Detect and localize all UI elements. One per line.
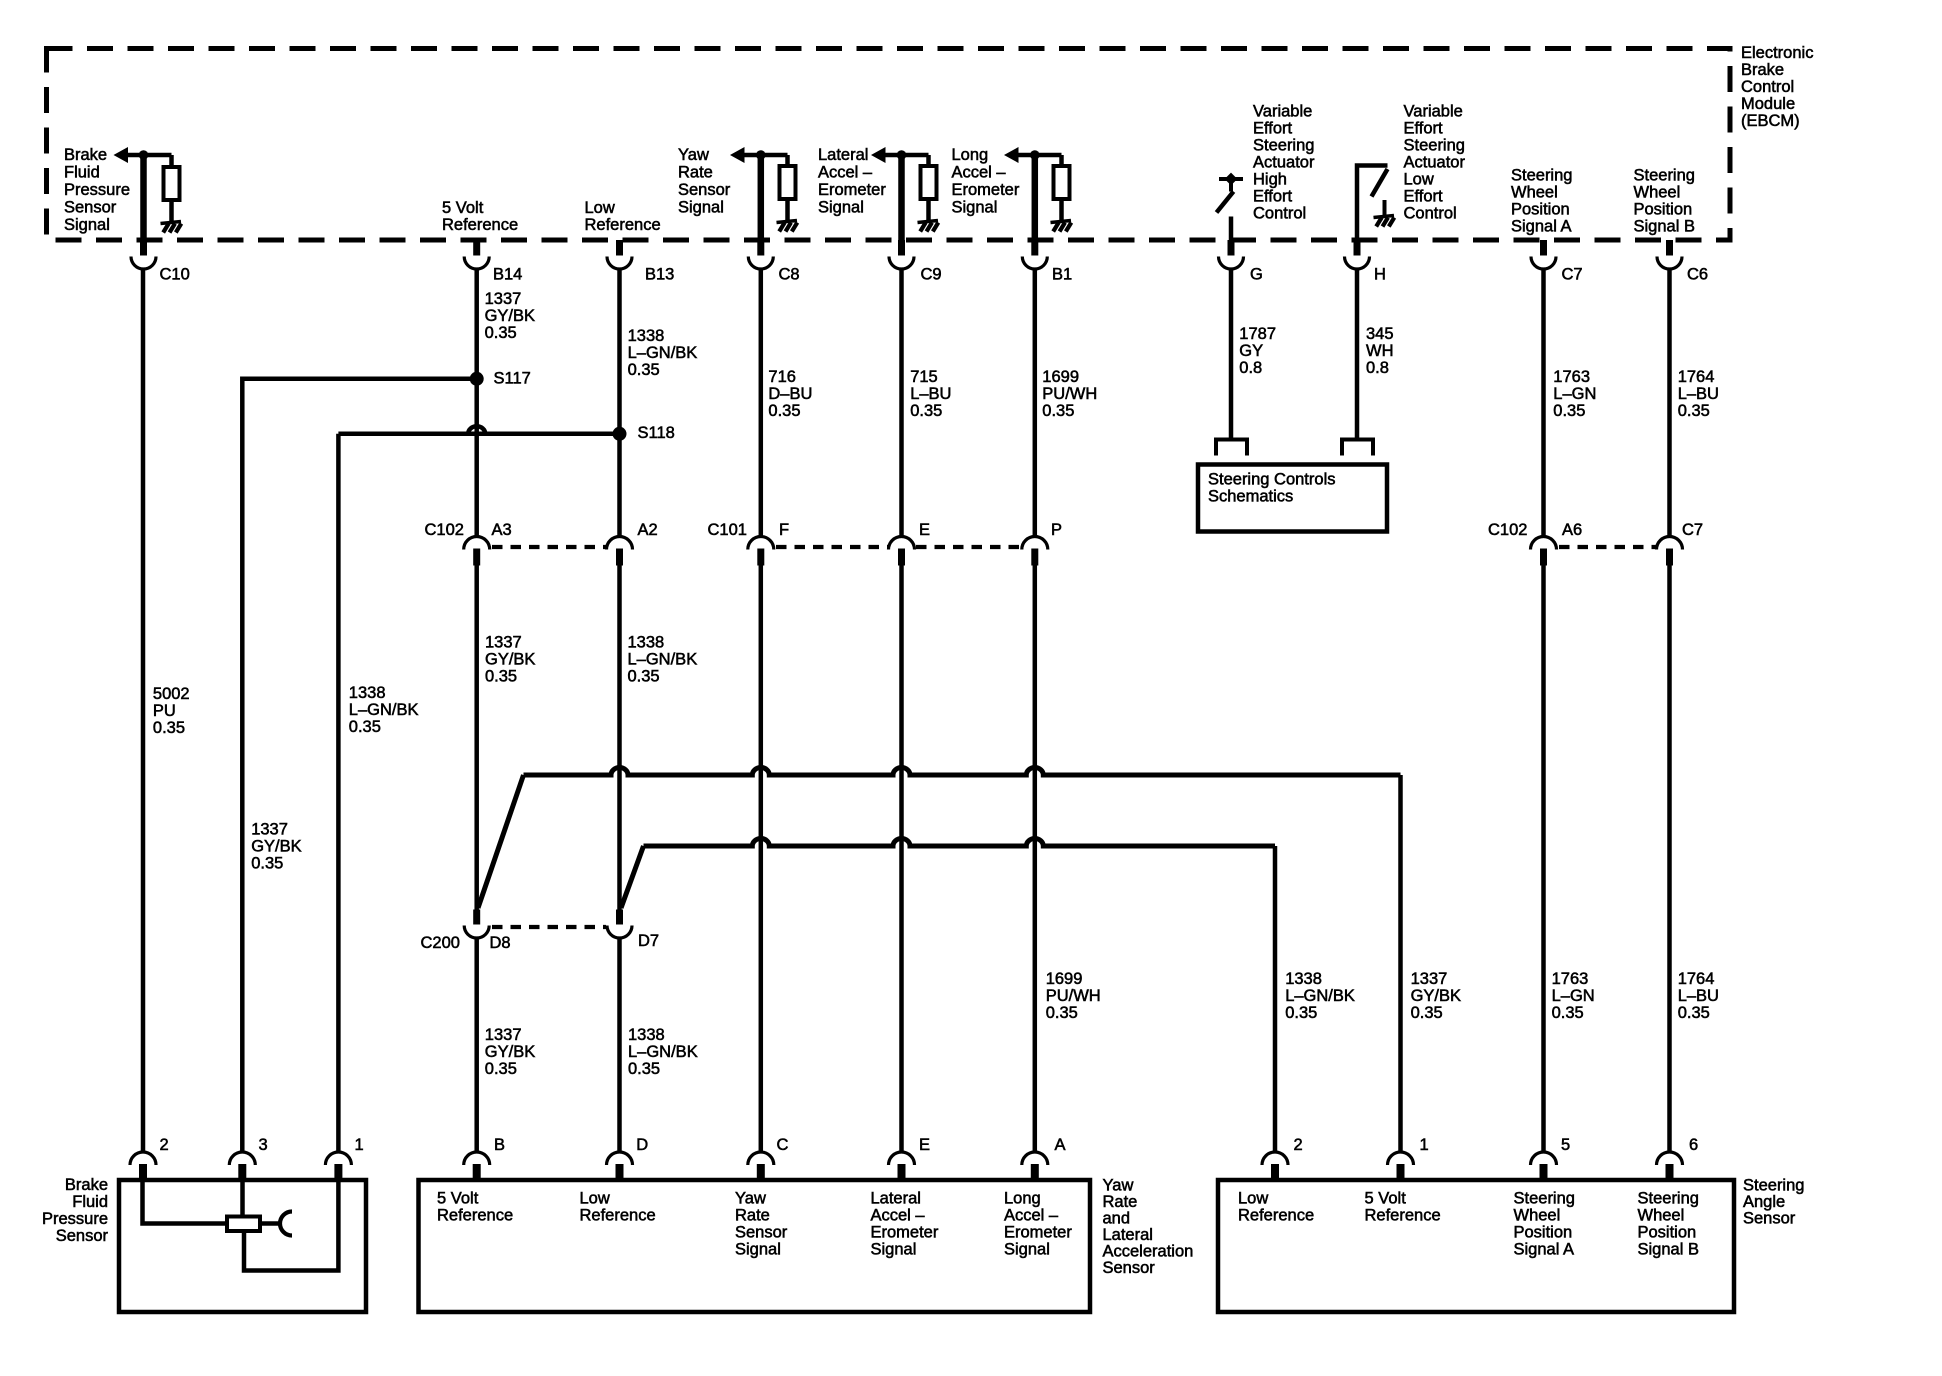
svg-text:0.8: 0.8 (1366, 359, 1389, 377)
svg-text:Yaw: Yaw (735, 1190, 766, 1208)
connector link dash E-P (916, 545, 1021, 549)
svg-text:0.35: 0.35 (349, 718, 381, 736)
svg-text:and: and (1103, 1210, 1131, 1228)
wire resistor R3 to ground (926, 198, 931, 221)
label: 5 Volt Reference (EBCM pin B14) (442, 199, 518, 234)
svg-text:Variable: Variable (1404, 103, 1463, 121)
wire B1 vertical inside EBCM (1032, 155, 1039, 240)
svg-text:H: H (1374, 266, 1386, 284)
wire resistor R4 to ground (1059, 198, 1064, 221)
wire C101 P to sensor pin A (1699) (1033, 566, 1038, 1153)
wire 1337 from C200 D8 to steering angle sensor pin 1 (hops over crossing wires) (524, 768, 1401, 776)
svg-text:Pressure: Pressure (42, 1210, 108, 1228)
arrow Lateral Accelerometer Signal (871, 147, 886, 163)
svg-text:Rate: Rate (1103, 1193, 1138, 1211)
svg-text:Wheel: Wheel (1638, 1207, 1685, 1225)
label: Steering Controls Schematics (1208, 471, 1335, 506)
wire label: circuit 1763 lower (1552, 970, 1595, 1022)
connector pin B14 (EBCM) (464, 240, 522, 284)
connector pin C9 (EBCM) (889, 240, 942, 284)
connector C102/C101 terminal C7 (1657, 521, 1704, 565)
svg-text:Signal A: Signal A (1511, 218, 1572, 236)
svg-text:0.35: 0.35 (1046, 1004, 1078, 1022)
label: Yaw Rate Sensor Signal (sensor pin C) (735, 1190, 788, 1259)
svg-text:Steering Controls: Steering Controls (1208, 471, 1335, 489)
svg-text:1338: 1338 (628, 327, 665, 345)
svg-text:Low: Low (1238, 1190, 1268, 1208)
svg-text:C: C (777, 1136, 789, 1154)
switch SW1 High Effort Control (1217, 173, 1244, 213)
label: Low Reference (sensor pin 2) (1238, 1190, 1314, 1225)
label: Lateral Accelerometer Signal (EBCM pin C9) (818, 146, 886, 217)
ground (EBCM internal, R2) (777, 221, 798, 223)
svg-text:Control: Control (1253, 205, 1306, 223)
svg-text:Long: Long (952, 146, 989, 164)
label: Brake Fluid Pressure Sensor Signal (EBCM pin C10) (64, 146, 130, 234)
svg-text:B: B (494, 1136, 505, 1154)
svg-text:Steering: Steering (1514, 1190, 1575, 1208)
junction dot at C10 wire tap (139, 150, 149, 160)
box: Steering Controls Schematics (1198, 465, 1387, 532)
label: Yaw Rate and Lateral Acceleration Sensor (1103, 1177, 1194, 1278)
connector link dash D8-D7 (492, 925, 606, 929)
svg-text:Signal: Signal (64, 216, 110, 234)
svg-text:715: 715 (910, 368, 938, 386)
svg-text:Signal: Signal (871, 1241, 917, 1259)
svg-text:E: E (919, 1136, 930, 1154)
svg-text:Effort: Effort (1404, 120, 1444, 138)
arrow Yaw Rate Sensor Signal (730, 147, 745, 163)
label: Steering Wheel Position Signal B (EBCM pin C6) (1634, 167, 1695, 236)
svg-text:1338: 1338 (1285, 970, 1322, 988)
svg-text:A: A (1055, 1136, 1066, 1154)
svg-text:Steering: Steering (1638, 1190, 1699, 1208)
junction (splice) S117 (470, 372, 484, 386)
label: 5 Volt Reference (sensor pin 1) (1365, 1190, 1441, 1225)
svg-text:Position: Position (1638, 1224, 1697, 1242)
connector pin B1 (EBCM) (1022, 240, 1072, 284)
svg-text:Low: Low (1404, 171, 1434, 189)
label: 5 Volt Reference (sensor pin B) (437, 1190, 513, 1225)
Electronic Brake Control Module (EBCM) dashed boundary box (47, 49, 1731, 241)
wire A3 to C200 D8 (1337) (474, 566, 479, 910)
connector pin C6 (EBCM) (1657, 240, 1708, 284)
svg-text:Signal: Signal (678, 199, 724, 217)
svg-text:Sensor: Sensor (735, 1224, 788, 1242)
wire label: circuit 1337 middle (485, 634, 535, 686)
label: Low Reference (sensor pin D) (580, 1190, 656, 1225)
svg-text:Sensor: Sensor (64, 199, 117, 217)
svg-text:0.35: 0.35 (1411, 1004, 1443, 1022)
connector sensor pin 2 (130, 1136, 169, 1181)
wire label: circuit 1337 (left branch) (251, 820, 301, 872)
svg-text:Signal B: Signal B (1638, 1241, 1699, 1259)
svg-text:S117: S117 (494, 370, 531, 388)
label: Steering Angle Sensor (1743, 1177, 1804, 1228)
wire to resistor R4 top (1059, 155, 1064, 166)
svg-text:D–BU: D–BU (768, 385, 812, 403)
svg-text:C6: C6 (1687, 266, 1708, 284)
wire resistor R2 to ground (785, 198, 790, 221)
wire diagonal into C200 D8 (478, 775, 524, 908)
wire to resistor R3 top (926, 155, 931, 166)
svg-text:Low: Low (585, 199, 615, 217)
label: Long Accelerometer Signal (EBCM pin B1) (952, 146, 1020, 217)
svg-text:S118: S118 (638, 424, 675, 442)
svg-text:0.35: 0.35 (1678, 402, 1710, 420)
svg-text:0.35: 0.35 (1678, 1004, 1710, 1022)
svg-text:A2: A2 (638, 521, 658, 539)
connector pin G (EBCM) (1219, 240, 1263, 284)
connector C102/C101 terminal A2 (607, 521, 658, 565)
svg-text:Schematics: Schematics (1208, 488, 1293, 506)
connector pin C10 (EBCM) (131, 240, 190, 284)
resistor R2 (EBCM internal) (780, 166, 796, 199)
wire C10 vertical inside EBCM (140, 155, 147, 240)
wire D7 to sensor pin D (1338) (617, 939, 622, 1153)
svg-text:1337: 1337 (485, 634, 522, 652)
svg-text:(EBCM): (EBCM) (1741, 112, 1800, 130)
svg-text:B14: B14 (493, 266, 522, 284)
svg-text:L–BU: L–BU (910, 385, 951, 403)
svg-text:C101: C101 (708, 521, 747, 539)
svg-text:1337: 1337 (251, 820, 288, 838)
svg-text:C9: C9 (921, 266, 942, 284)
connector C102/C101 terminal E (889, 521, 931, 565)
wire C9 vertical inside EBCM (898, 155, 905, 240)
svg-text:Signal: Signal (818, 199, 864, 217)
svg-text:Position: Position (1514, 1224, 1573, 1242)
svg-text:C102: C102 (425, 521, 464, 539)
svg-text:Long: Long (1004, 1190, 1041, 1208)
svg-text:1764: 1764 (1678, 368, 1715, 386)
svg-text:Effort: Effort (1253, 188, 1293, 206)
connector sensor pin D (607, 1136, 649, 1181)
off-page bracket H wire (1342, 440, 1373, 456)
resistor R3 (EBCM internal) (921, 166, 937, 199)
wire switch SW1 to EBCM border (pin G) (1229, 217, 1234, 241)
svg-text:GY/BK: GY/BK (1411, 987, 1461, 1005)
box: Brake Fluid Pressure Sensor (119, 1180, 366, 1312)
svg-text:High: High (1253, 171, 1287, 189)
wire S118 branch to sensor pin 1 (1338), hops over B14 wire (338, 426, 619, 434)
svg-text:1338: 1338 (628, 1026, 665, 1044)
svg-text:1763: 1763 (1553, 368, 1590, 386)
wire sensor pin 1 internal (244, 1182, 338, 1271)
svg-text:1337: 1337 (485, 1026, 522, 1044)
wire C8 to C101 F (716) (759, 269, 764, 537)
svg-text:5002: 5002 (153, 685, 190, 703)
wire C7 to C102 A6 (1763) (1541, 269, 1546, 537)
connector sensor pin E (889, 1136, 931, 1181)
connector link dash A3-A2 (492, 545, 606, 549)
label: Electronic Brake Control Module (EBCM) (1741, 44, 1813, 130)
connector link dash A6-C7 (1559, 545, 1656, 549)
wire label: circuit 1699 upper (1042, 368, 1097, 420)
ground (EBCM internal, R3) (918, 221, 939, 223)
label S117 (494, 370, 531, 388)
svg-text:1337: 1337 (1411, 970, 1448, 988)
svg-text:L–GN: L–GN (1552, 987, 1595, 1005)
svg-text:Reference: Reference (442, 216, 518, 234)
svg-text:Sensor: Sensor (56, 1227, 109, 1245)
connector sensor pin 1 (325, 1136, 363, 1181)
label: Variable Effort Steering Actuator Low Effort Control (pin H) (1404, 103, 1466, 223)
resistor R4 (EBCM internal) (1054, 166, 1070, 199)
svg-text:Variable: Variable (1253, 103, 1312, 121)
box: Steering Angle Sensor (1218, 1180, 1734, 1312)
wire label: circuit 1338 middle (628, 634, 698, 686)
svg-text:L–BU: L–BU (1678, 987, 1719, 1005)
svg-text:Yaw: Yaw (678, 146, 709, 164)
connector sensor pin 3 (229, 1136, 267, 1181)
svg-text:Reference: Reference (1238, 1207, 1314, 1225)
svg-text:Accel –: Accel – (952, 164, 1007, 182)
svg-text:Steering: Steering (1743, 1177, 1804, 1195)
svg-text:D7: D7 (638, 932, 659, 950)
svg-text:0.35: 0.35 (485, 668, 517, 686)
svg-text:A3: A3 (492, 521, 512, 539)
svg-text:Effort: Effort (1404, 188, 1444, 206)
svg-text:Position: Position (1634, 201, 1693, 219)
wire G to Steering Controls Schematics (1787) (1229, 269, 1234, 438)
wire label: circuit 1337 right (1411, 970, 1461, 1022)
connector sensor pin 1 (1388, 1136, 1429, 1181)
svg-text:C200: C200 (421, 934, 460, 952)
svg-text:P: P (1051, 521, 1062, 539)
junction dot at C9 wire tap (897, 150, 907, 160)
junction dot at C8 wire tap (756, 150, 766, 160)
svg-text:B1: B1 (1052, 266, 1072, 284)
svg-text:1699: 1699 (1042, 368, 1079, 386)
switch SW2 Low Effort Control (1357, 166, 1388, 241)
svg-text:0.35: 0.35 (628, 1060, 660, 1078)
wire label: circuit 1699 lower (1046, 970, 1101, 1022)
wire B13 to C102 A2 (1338) (617, 269, 622, 537)
svg-text:Angle: Angle (1743, 1193, 1785, 1211)
svg-text:Brake: Brake (65, 1176, 108, 1194)
svg-text:Erometer: Erometer (871, 1224, 939, 1242)
svg-text:Acceleration: Acceleration (1103, 1243, 1194, 1261)
svg-text:5: 5 (1561, 1136, 1570, 1154)
label C102 (right) (1488, 521, 1527, 539)
junction (splice) S118 (613, 427, 627, 441)
wire B1 to C101 P (1699) (1033, 269, 1038, 537)
svg-text:5 Volt: 5 Volt (442, 199, 484, 217)
svg-text:GY/BK: GY/BK (485, 307, 535, 325)
wire B14 to C102 A3 (1337) (474, 269, 479, 537)
svg-text:Steering: Steering (1253, 137, 1314, 155)
wire D8 to sensor pin B (1337) (474, 939, 479, 1153)
svg-text:Reference: Reference (585, 216, 661, 234)
svg-text:GY/BK: GY/BK (485, 651, 535, 669)
wire C6 to C102 C7 (1764) (1667, 269, 1672, 537)
connector sensor pin A (1022, 1136, 1066, 1181)
connector pin C8 (EBCM) (748, 240, 799, 284)
svg-text:Signal: Signal (735, 1241, 781, 1259)
connector sensor pin 5 (1531, 1136, 1571, 1181)
ground (EBCM internal, R1) (161, 222, 182, 224)
wire A2 to C200 D7 (1338) (617, 566, 622, 910)
connector pin B13 (EBCM) (607, 240, 674, 284)
svg-text:Brake: Brake (1741, 61, 1784, 79)
wire label: circuit 1338 lower (628, 1026, 698, 1078)
transducer symbol (pressure transducer C shape) (280, 1212, 292, 1236)
svg-text:WH: WH (1366, 342, 1394, 360)
wire arrow to resistor R4 (1016, 153, 1062, 158)
svg-text:C8: C8 (779, 266, 800, 284)
wire arrow to resistor R2 (742, 153, 788, 158)
wire sensor pin 2 internal (143, 1182, 228, 1224)
wire label: circuit 1764 upper (1678, 368, 1719, 420)
off-page bracket G wire (1216, 440, 1247, 456)
svg-text:Lateral: Lateral (871, 1190, 921, 1208)
wire C102 A6 to sensor pin 5 (1763) (1541, 566, 1546, 1153)
wire C8 vertical inside EBCM (758, 155, 765, 240)
svg-text:0.35: 0.35 (628, 668, 660, 686)
connector C200 terminal D7 (607, 910, 659, 951)
label C101 (708, 521, 747, 539)
wire label: circuit 1787 (1239, 325, 1276, 377)
wire label: circuit 1338 right (1285, 970, 1355, 1022)
svg-text:1763: 1763 (1552, 970, 1589, 988)
svg-text:GY/BK: GY/BK (251, 837, 301, 855)
svg-text:PU: PU (153, 702, 176, 720)
svg-text:1764: 1764 (1678, 970, 1715, 988)
label: Lateral Accelerometer Signal (sensor pin E) (871, 1190, 939, 1259)
wire resistor R1 to ground (169, 199, 174, 222)
svg-text:1: 1 (355, 1136, 364, 1154)
wire C10 to sensor pin 2 (5002 PU) (141, 269, 146, 1153)
svg-text:Sensor: Sensor (678, 181, 731, 199)
svg-text:0.35: 0.35 (153, 719, 185, 737)
svg-text:Lateral: Lateral (1103, 1226, 1153, 1244)
svg-text:Actuator: Actuator (1253, 154, 1315, 172)
svg-text:0.35: 0.35 (251, 854, 283, 872)
svg-text:Control: Control (1741, 78, 1794, 96)
svg-text:Fluid: Fluid (72, 1193, 108, 1211)
label C102 (left) (425, 521, 464, 539)
wire C101 E to sensor pin E (715) (899, 566, 904, 1153)
connector C102/C101 terminal A3 (464, 521, 512, 565)
label C200 (421, 934, 460, 952)
svg-text:Accel –: Accel – (818, 164, 873, 182)
connector sensor pin B (464, 1136, 505, 1181)
svg-text:5 Volt: 5 Volt (437, 1190, 479, 1208)
connector C102/C101 terminal F (748, 521, 789, 565)
svg-text:Signal: Signal (952, 199, 998, 217)
svg-text:Steering: Steering (1634, 167, 1695, 185)
svg-text:Reference: Reference (437, 1207, 513, 1225)
ground (switch SW2) (1374, 216, 1395, 218)
svg-text:Sensor: Sensor (1743, 1210, 1796, 1228)
wire to resistor R2 top (785, 155, 790, 166)
svg-text:Pressure: Pressure (64, 181, 130, 199)
svg-text:Erometer: Erometer (952, 181, 1020, 199)
svg-text:5 Volt: 5 Volt (1365, 1190, 1407, 1208)
wire sensor pin 3 internal (240, 1182, 245, 1216)
svg-text:L–GN: L–GN (1553, 385, 1596, 403)
connector pin C7 (EBCM) (1531, 240, 1583, 284)
svg-text:Steering: Steering (1404, 137, 1465, 155)
label: Low Reference (EBCM pin B13) (585, 199, 661, 234)
svg-text:C102: C102 (1488, 521, 1527, 539)
wire arrow to resistor R3 (883, 153, 929, 158)
svg-text:B13: B13 (645, 266, 674, 284)
svg-text:Accel –: Accel – (871, 1207, 926, 1225)
wire label: circuit 1764 lower (1678, 970, 1719, 1022)
svg-text:F: F (779, 521, 789, 539)
svg-text:0.35: 0.35 (910, 402, 942, 420)
svg-text:Position: Position (1511, 201, 1570, 219)
svg-text:6: 6 (1689, 1136, 1698, 1154)
label: Steering Wheel Position Signal B (sensor pin 6) (1638, 1190, 1699, 1259)
svg-text:Actuator: Actuator (1404, 154, 1466, 172)
svg-text:1338: 1338 (349, 684, 386, 702)
svg-text:2: 2 (160, 1136, 169, 1154)
wire label: circuit 1763 upper (1553, 368, 1596, 420)
svg-text:Wheel: Wheel (1634, 184, 1681, 202)
svg-text:3: 3 (259, 1136, 268, 1154)
svg-text:0.35: 0.35 (628, 361, 660, 379)
svg-text:E: E (919, 521, 930, 539)
svg-text:Electronic: Electronic (1741, 44, 1813, 62)
svg-text:GY: GY (1239, 342, 1263, 360)
svg-text:Steering: Steering (1511, 167, 1572, 185)
svg-text:L–BU: L–BU (1678, 385, 1719, 403)
connector sensor pin 6 (1657, 1136, 1699, 1181)
svg-text:Signal A: Signal A (1514, 1241, 1575, 1259)
svg-text:0.8: 0.8 (1239, 359, 1262, 377)
svg-text:Control: Control (1404, 205, 1457, 223)
svg-text:0.35: 0.35 (768, 402, 800, 420)
svg-text:Fluid: Fluid (64, 164, 100, 182)
svg-text:Accel –: Accel – (1004, 1207, 1059, 1225)
svg-text:1: 1 (1420, 1136, 1429, 1154)
wire C101 F to sensor pin C (716) (759, 566, 764, 1153)
label: Yaw Rate Sensor Signal (EBCM pin C8) (678, 146, 731, 217)
svg-text:0.35: 0.35 (1552, 1004, 1584, 1022)
wire label: circuit 715 upper (910, 368, 951, 420)
svg-text:G: G (1250, 266, 1263, 284)
svg-text:C10: C10 (160, 266, 190, 284)
wire H to Steering Controls Schematics (345) (1355, 269, 1360, 438)
svg-text:0.35: 0.35 (1042, 402, 1074, 420)
svg-text:A6: A6 (1562, 521, 1582, 539)
wire label: circuit 1337 lower (485, 1026, 535, 1078)
svg-text:2: 2 (1294, 1136, 1303, 1154)
svg-text:0.35: 0.35 (485, 324, 517, 342)
wire label: circuit 345 (1366, 325, 1394, 377)
label: Steering Wheel Position Signal A (EBCM pin C7) (1511, 167, 1572, 236)
label S118 (638, 424, 675, 442)
svg-text:D: D (636, 1136, 648, 1154)
svg-text:Yaw: Yaw (1103, 1177, 1134, 1195)
svg-text:Wheel: Wheel (1511, 184, 1558, 202)
svg-text:1699: 1699 (1046, 970, 1083, 988)
svg-text:0.35: 0.35 (1285, 1004, 1317, 1022)
svg-text:1338: 1338 (628, 634, 665, 652)
wire C9 to C101 E (715) (899, 269, 904, 537)
wire label: circuit 1338 (left branch) (349, 684, 419, 736)
wire S117 branch to sensor pin 3 (1337) (242, 379, 476, 1153)
connector C102/C101 terminal A6 (1531, 521, 1583, 565)
svg-text:L–GN/BK: L–GN/BK (628, 651, 698, 669)
svg-text:Erometer: Erometer (818, 181, 886, 199)
svg-text:Rate: Rate (678, 164, 713, 182)
svg-text:Reference: Reference (580, 1207, 656, 1225)
svg-text:Rate: Rate (735, 1207, 770, 1225)
